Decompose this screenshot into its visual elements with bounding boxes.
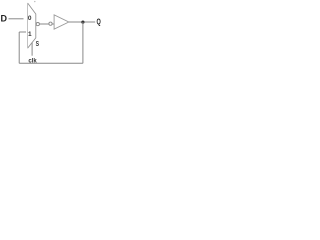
svg-text:1: 1 [28,31,32,38]
svg-text:clk: clk [28,58,37,64]
wire (clk select stub) [31,43,33,56]
wire (feedback bottom) [19,62,83,64]
svg-text:D: D [1,13,8,23]
bubble (mux output) [36,23,39,26]
wire (feedback into input 1) [19,31,26,33]
svg-text:S: S [36,39,39,48]
svg-text:Q: Q [97,17,102,27]
speck (scan artifact) [34,1,35,2]
buffer U2 [54,15,69,29]
svg-text:0: 0 [28,15,32,22]
wire [9,18,24,20]
junction [81,21,84,24]
wire [69,21,95,23]
multiplexer U1 [28,3,36,48]
wire (feedback left vertical) [18,32,20,63]
bubble (buffer input) [49,22,52,25]
multiplexer U1 left edge [27,3,29,48]
wire [39,23,54,25]
wire (feedback right vertical) [82,22,84,63]
